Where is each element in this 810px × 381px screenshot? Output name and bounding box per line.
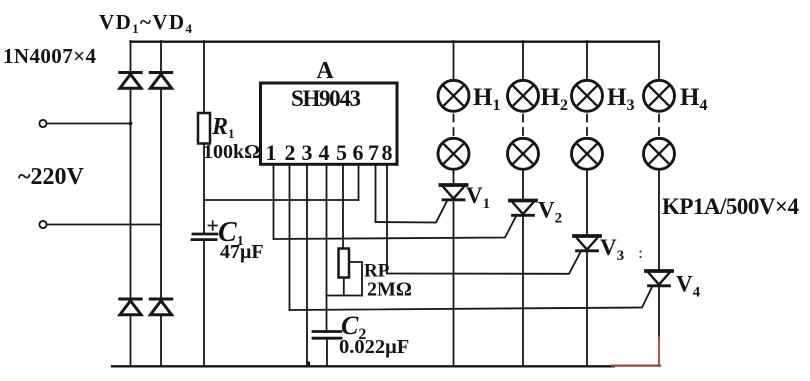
node: pin 3 bus junction blob (308, 362, 311, 368)
wire: top DC+ bus (131, 41, 660, 43)
lamp H2 lower (508, 138, 539, 169)
wire: pin 6 to Vdd node (204, 199, 359, 201)
node: scan artifact colon near V4 (639, 250, 641, 258)
transistor V4: thyristor (646, 271, 672, 286)
terminal: AC input lower (39, 221, 46, 228)
lamp H3 upper (572, 80, 603, 111)
wire: V4 cathode upper segment (658, 286, 660, 338)
wire: pin 1 to V2 gate (274, 215, 517, 239)
capacitor C1 (192, 221, 217, 239)
wire: bottom bus right segment (reddish scan ink) (612, 365, 660, 367)
wire: H1 column from top bus (453, 41, 455, 80)
wire: bridge column 2 bottom (VD4 to bus) (160, 315, 162, 367)
capacitor C2 (313, 332, 341, 339)
svg-text:1: 1 (266, 140, 277, 165)
wire: V3 cathode to bottom bus (586, 251, 588, 367)
wire: pin 8 to V3 gate (387, 252, 581, 274)
wire: pin 7 lead down (375, 164, 377, 222)
svg-text:A: A (316, 58, 334, 84)
wire: C2 to bottom bus (326, 338, 328, 366)
wire: pin 7 to V1 gate (376, 201, 448, 223)
wire: V1 cathode to bottom bus (453, 200, 455, 367)
wire: pin 6 lead down (358, 164, 360, 200)
svg-text:6: 6 (353, 140, 364, 165)
transistor V1: thyristor (441, 185, 467, 200)
wire: pin 8 lead down (386, 164, 388, 274)
wire: bottom DC- bus (112, 365, 614, 367)
svg-text:47μF: 47μF (220, 241, 264, 263)
svg-text:SH9043: SH9043 (291, 86, 361, 111)
diode VD3 (120, 299, 141, 315)
wire: V4 cathode to bus (reddish scan ink) (658, 337, 660, 366)
wire: bridge column 1 top (bus to VD1) (130, 41, 132, 72)
wire: R1 branch top (bus to R1) (203, 41, 205, 113)
lamp H3 lower (572, 138, 603, 169)
lamp H1 upper (438, 80, 469, 111)
wire: H4 column from top bus corner (658, 41, 660, 80)
wire: H2 dashed link (522, 112, 524, 139)
svg-text:8: 8 (382, 140, 393, 165)
wire: H2 lower lamp to V2 (522, 169, 524, 200)
wire: pin 4 lead down to C2 (326, 164, 328, 332)
svg-text:100kΩ: 100kΩ (203, 141, 260, 163)
wire: H4 lower lamp to V4 (658, 169, 660, 271)
wire: R1 to Vdd node (203, 144, 205, 235)
resistor R1 (198, 113, 210, 144)
wire: bridge column 2 top (bus to VD2) (160, 41, 162, 72)
node: junction AC-L on column 1 (129, 122, 133, 126)
wire: pin 3 to ground bus (306, 164, 308, 367)
lamp H1 lower (438, 138, 469, 169)
svg-text:0.022μF: 0.022μF (339, 336, 409, 358)
wire: C1 to bottom bus (203, 240, 205, 367)
wire: H4 dashed link (658, 112, 660, 139)
wire: H1 dashed link (453, 112, 455, 139)
wire: bridge column 1 middle (AC node L) (130, 89, 132, 299)
lamp H2 upper (508, 80, 539, 111)
wire: H2 column from top bus (522, 41, 524, 80)
wire: upper AC terminal to column 1 (47, 123, 131, 125)
wire: pin 1 lead down (273, 164, 275, 239)
diode VD1 (120, 73, 141, 89)
lamp H4 lower (644, 138, 675, 169)
wire: pin 2 to V4 gate (290, 286, 653, 310)
wire: V2 cathode to bottom bus (522, 215, 524, 366)
op-amp U1: IC A SH9043 box (261, 83, 398, 164)
svg-text:7: 7 (368, 140, 379, 165)
transistor V3: thyristor (574, 236, 600, 251)
svg-text:KP1A/500V×4: KP1A/500V×4 (662, 194, 800, 219)
potentiometer RP (339, 249, 350, 278)
svg-text:4: 4 (319, 140, 330, 165)
wire: RP wiper tap (349, 262, 362, 296)
svg-text:5: 5 (336, 140, 347, 165)
wire: pin 2 lead down (289, 164, 291, 310)
svg-text:1N4007×4: 1N4007×4 (3, 44, 97, 68)
lamp H4 upper (644, 80, 675, 111)
svg-text:VD1~VD4: VD1~VD4 (99, 10, 193, 36)
wire: RP bottom lead (343, 278, 345, 296)
transistor V2: thyristor (510, 201, 536, 216)
svg-text:~220V: ~220V (18, 164, 84, 190)
svg-text:3: 3 (302, 140, 313, 165)
diode VD2 (150, 73, 171, 89)
wire: bridge column 1 bottom (VD3 to bus) (130, 315, 132, 367)
terminal: AC input upper (39, 120, 46, 127)
wire: H3 lower lamp to V3 (586, 169, 588, 236)
wire: lower AC terminal to column 2 (47, 224, 161, 226)
wire: RP node to pin 4 line (327, 295, 363, 297)
wire: H3 dashed link (586, 112, 588, 139)
wire: pin 5 lead to RP top (342, 164, 344, 249)
diode VD4 (150, 299, 171, 315)
wire: H3 column from top bus (586, 41, 588, 80)
wire: H1 lower lamp to V1 (453, 169, 455, 185)
svg-text:2MΩ: 2MΩ (367, 279, 412, 301)
wire: bridge column 2 middle (AC node N) (160, 89, 162, 299)
svg-text:2: 2 (285, 140, 296, 165)
